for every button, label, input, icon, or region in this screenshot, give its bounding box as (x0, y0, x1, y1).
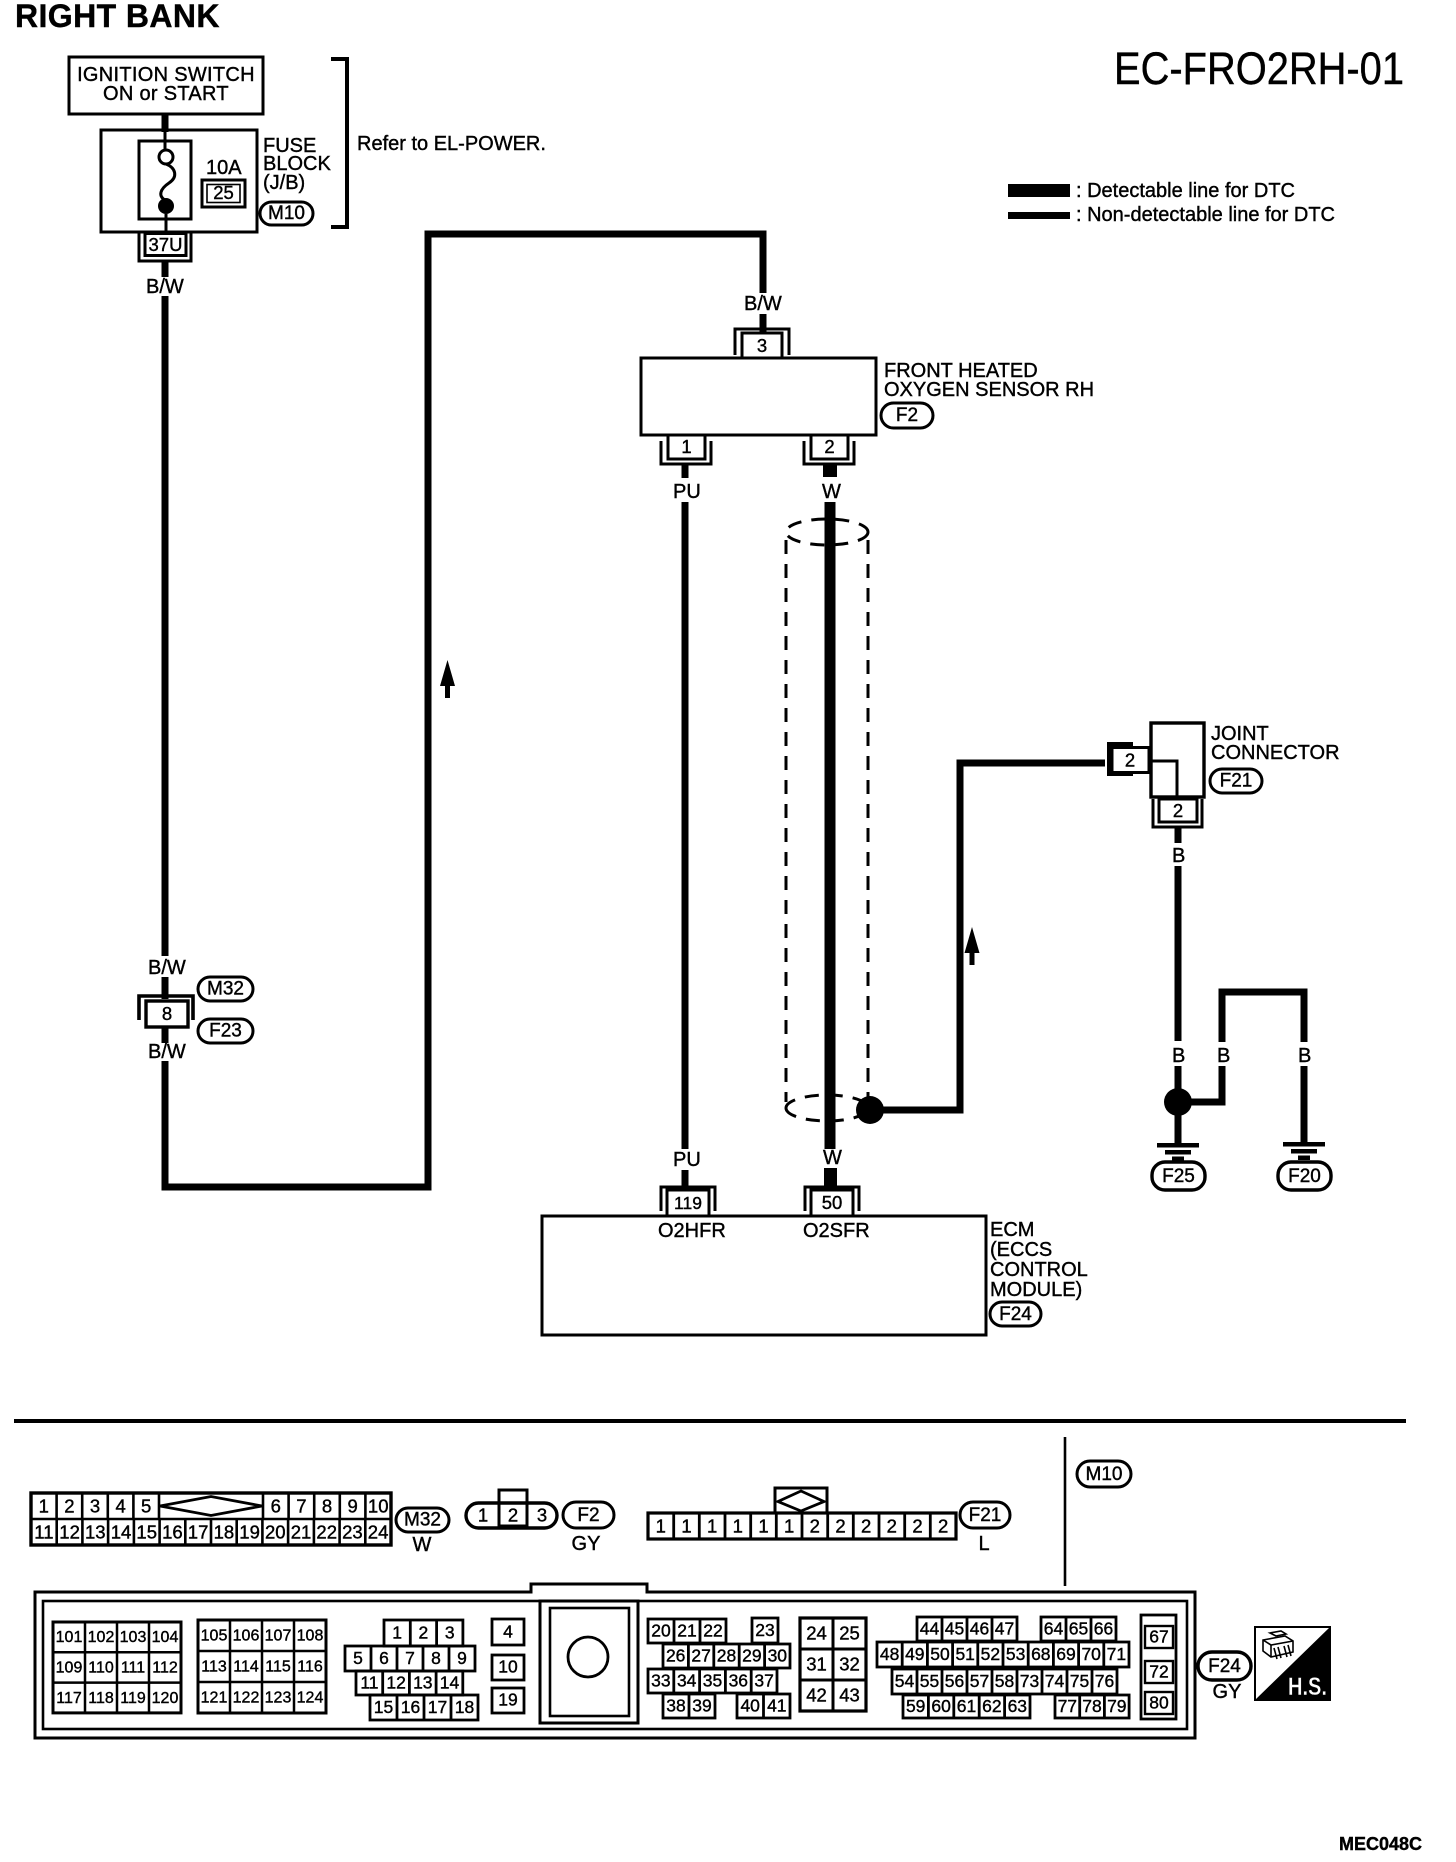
label B (right) (1298, 1045, 1311, 1067)
svg-text:119: 119 (120, 1690, 146, 1707)
wire W vertical (detectable) (825, 502, 836, 1149)
svg-text:MEC048C: MEC048C (1339, 1834, 1422, 1854)
svg-text:F21: F21 (969, 1505, 1002, 1526)
svg-text:121: 121 (201, 1690, 228, 1707)
label B below joint connector (1172, 845, 1185, 867)
svg-text:67: 67 (1149, 1627, 1168, 1647)
svg-text:30: 30 (768, 1646, 788, 1666)
svg-text:2: 2 (1125, 750, 1135, 771)
svg-text:79: 79 (1107, 1696, 1126, 1716)
svg-text:1: 1 (681, 1516, 691, 1537)
svg-text:F24: F24 (999, 1304, 1032, 1325)
wire stub into pin 119 (682, 1170, 689, 1188)
color label L (978, 1533, 989, 1555)
svg-text:104: 104 (152, 1629, 179, 1646)
svg-text:B/W: B/W (148, 1041, 186, 1063)
svg-text:W: W (823, 1147, 842, 1169)
svg-text:27: 27 (691, 1646, 710, 1666)
svg-text:41: 41 (767, 1696, 786, 1716)
svg-text:5: 5 (353, 1648, 363, 1668)
svg-text:H.S.: H.S. (1288, 1673, 1327, 1701)
svg-text:24: 24 (806, 1623, 827, 1644)
svg-text:1: 1 (681, 436, 691, 457)
svg-text:18: 18 (214, 1522, 235, 1543)
svg-text:CONNECTOR: CONNECTOR (1211, 742, 1340, 764)
svg-text:1: 1 (392, 1623, 402, 1643)
label B/W (146, 276, 184, 298)
svg-text:40: 40 (740, 1696, 760, 1716)
svg-text:F25: F25 (1162, 1166, 1195, 1187)
separator line (14, 1419, 1406, 1423)
svg-text:RIGHT BANK: RIGHT BANK (15, 0, 220, 34)
svg-text:F21: F21 (1220, 771, 1253, 792)
svg-text:15: 15 (374, 1697, 393, 1717)
svg-text:2: 2 (938, 1516, 948, 1537)
ECM pins 67,72,80 column (1141, 1615, 1176, 1719)
svg-text:45: 45 (945, 1619, 964, 1639)
flow arrow up on drain wire (965, 927, 980, 965)
svg-text:22: 22 (703, 1621, 722, 1641)
svg-text:ON or START: ON or START (103, 83, 229, 105)
svg-text:MODULE): MODULE) (990, 1279, 1082, 1301)
svg-text:38: 38 (666, 1696, 685, 1716)
wire B vertical (1175, 866, 1182, 1041)
bracket for EL-POWER reference (331, 59, 347, 227)
svg-text:54: 54 (895, 1671, 915, 1691)
svg-text:71: 71 (1107, 1644, 1126, 1664)
svg-text:32: 32 (839, 1654, 860, 1675)
svg-text:31: 31 (806, 1654, 827, 1675)
connector label F24 (990, 1302, 1041, 1326)
svg-text:117: 117 (56, 1690, 82, 1707)
svg-text:3: 3 (757, 335, 767, 356)
svg-text:B/W: B/W (148, 957, 186, 979)
shield dashed cylinder (786, 519, 868, 1121)
svg-text:50: 50 (930, 1644, 950, 1664)
connector M32 pin grid (31, 1493, 391, 1545)
svg-text:114: 114 (233, 1659, 259, 1676)
svg-text:L: L (978, 1533, 989, 1555)
MEC048C code (1339, 1834, 1422, 1854)
ECM box (542, 1216, 986, 1335)
svg-text:66: 66 (1094, 1619, 1113, 1639)
svg-text:EC-FRO2RH-01: EC-FRO2RH-01 (1114, 43, 1404, 94)
svg-text:77: 77 (1058, 1696, 1077, 1716)
svg-text:48: 48 (880, 1644, 899, 1664)
svg-text:1: 1 (39, 1496, 49, 1517)
svg-text:3: 3 (537, 1505, 547, 1526)
svg-text:OXYGEN SENSOR RH: OXYGEN SENSOR RH (884, 379, 1094, 401)
connector 37U (139, 232, 191, 277)
svg-text:14: 14 (111, 1522, 132, 1543)
svg-text:B/W: B/W (744, 293, 782, 315)
svg-text:124: 124 (297, 1690, 324, 1707)
connector label F21 (bottom) (960, 1502, 1010, 1528)
svg-text:12: 12 (59, 1522, 80, 1543)
svg-text:50: 50 (822, 1192, 843, 1213)
junction dot shield drain (856, 1096, 884, 1124)
diagram id EC-FRO2RH-01 (1114, 43, 1404, 94)
fuse 25 (10A) (139, 132, 245, 232)
connector label F21 (1210, 769, 1262, 793)
svg-text:(ECCS: (ECCS (990, 1239, 1052, 1261)
pin 3 of front heated oxygen sensor (735, 329, 789, 358)
svg-text:M32: M32 (207, 979, 244, 1000)
svg-text:20: 20 (651, 1621, 671, 1641)
connector F2 pin strip (466, 1490, 557, 1528)
ECM pins 105-124 grid (198, 1620, 326, 1713)
svg-text:42: 42 (806, 1685, 827, 1706)
M10 section line (1064, 1437, 1067, 1586)
ground label F25 (1152, 1162, 1205, 1190)
label B/W (148, 957, 186, 979)
svg-text:3: 3 (90, 1496, 100, 1517)
svg-text:9: 9 (347, 1496, 357, 1517)
svg-text:47: 47 (995, 1619, 1014, 1639)
svg-text:6: 6 (379, 1648, 389, 1668)
svg-text:O2HFR: O2HFR (658, 1220, 726, 1242)
svg-text:F24: F24 (1208, 1656, 1241, 1677)
svg-text:PU: PU (673, 1149, 701, 1171)
ECM pins 101-120 grid (53, 1622, 181, 1713)
svg-text:1: 1 (707, 1516, 717, 1537)
svg-text:7: 7 (405, 1648, 415, 1668)
svg-text:13: 13 (85, 1522, 106, 1543)
svg-text:18: 18 (455, 1697, 474, 1717)
svg-text:59: 59 (906, 1696, 925, 1716)
connector label F2 (881, 403, 933, 428)
svg-text:GY: GY (1213, 1681, 1242, 1703)
svg-text:35: 35 (703, 1671, 722, 1691)
legend non-detectable line for DTC (1008, 204, 1335, 226)
svg-text:4: 4 (503, 1622, 513, 1642)
wire PU vertical (682, 502, 689, 1149)
label O2SFR (803, 1220, 870, 1242)
svg-text:1: 1 (733, 1516, 743, 1537)
svg-text:123: 123 (265, 1690, 292, 1707)
svg-text:F2: F2 (896, 405, 918, 426)
svg-text:24: 24 (368, 1522, 389, 1543)
connector label F2 (bottom) (563, 1502, 614, 1528)
svg-text:8: 8 (431, 1648, 441, 1668)
ECM center keyway (540, 1601, 638, 1723)
connector label M32 (bottom) (396, 1508, 449, 1532)
svg-text:44: 44 (920, 1619, 940, 1639)
pin 1 of sensor (661, 435, 711, 478)
svg-text:1: 1 (478, 1505, 488, 1526)
svg-text:2: 2 (887, 1516, 897, 1537)
svg-text:19: 19 (239, 1522, 260, 1543)
svg-text:62: 62 (982, 1696, 1001, 1716)
svg-text:34: 34 (677, 1671, 697, 1691)
svg-text:108: 108 (297, 1628, 324, 1645)
svg-text:57: 57 (970, 1671, 989, 1691)
svg-text:51: 51 (955, 1644, 974, 1664)
pin 2 of joint connector (left) (1109, 744, 1149, 774)
connector label M10 (260, 202, 313, 225)
svg-text:17: 17 (188, 1522, 209, 1543)
svg-text:14: 14 (440, 1673, 460, 1693)
svg-text:13: 13 (413, 1673, 432, 1693)
wire dot to middle branch (1188, 1066, 1222, 1102)
svg-text:63: 63 (1008, 1696, 1027, 1716)
wire bridge middle to right branch (1222, 992, 1304, 1042)
svg-text:106: 106 (233, 1628, 260, 1645)
svg-text:113: 113 (201, 1659, 227, 1676)
label O2HFR (658, 1220, 726, 1242)
svg-text:102: 102 (88, 1629, 115, 1646)
svg-text:70: 70 (1081, 1644, 1101, 1664)
svg-text:37: 37 (754, 1671, 773, 1691)
pin 119 of ECM (661, 1187, 715, 1216)
junction dot ground net (1164, 1088, 1192, 1116)
svg-text:12: 12 (386, 1673, 405, 1693)
svg-text:53: 53 (1006, 1644, 1025, 1664)
connector F21 pin strip (648, 1488, 956, 1539)
svg-text:80: 80 (1149, 1693, 1169, 1713)
svg-text:9: 9 (457, 1648, 467, 1668)
svg-text:M32: M32 (404, 1510, 441, 1531)
svg-text:8: 8 (162, 1003, 172, 1024)
svg-text:72: 72 (1149, 1662, 1168, 1682)
label B (middle) (1217, 1045, 1230, 1067)
svg-text:73: 73 (1020, 1671, 1039, 1691)
svg-text:25: 25 (213, 182, 234, 203)
ECM pins 24-43 grid (800, 1618, 866, 1711)
wire stub into pin 50 (thick) (824, 1168, 837, 1188)
svg-text:109: 109 (56, 1660, 83, 1677)
svg-text:116: 116 (297, 1659, 323, 1676)
svg-text:PU: PU (673, 481, 701, 503)
svg-text:69: 69 (1056, 1644, 1075, 1664)
wire ignition switch to fuse block (162, 114, 169, 132)
svg-text:61: 61 (957, 1696, 976, 1716)
svg-text:1: 1 (784, 1516, 794, 1537)
svg-text:16: 16 (162, 1522, 183, 1543)
svg-text:26: 26 (666, 1646, 685, 1666)
svg-text:: Detectable line for DTC: : Detectable line for DTC (1076, 180, 1295, 202)
svg-text:W: W (413, 1534, 432, 1556)
svg-text:11: 11 (34, 1522, 53, 1543)
svg-text:B: B (1217, 1045, 1230, 1067)
svg-text:2: 2 (508, 1505, 518, 1526)
label joint connector (1211, 723, 1340, 764)
svg-text:16: 16 (401, 1697, 420, 1717)
svg-text:3: 3 (445, 1623, 455, 1643)
svg-text:: Non-detectable line for DTC: : Non-detectable line for DTC (1076, 204, 1335, 226)
svg-text:115: 115 (265, 1659, 291, 1676)
svg-text:76: 76 (1095, 1671, 1114, 1691)
svg-text:B: B (1172, 1045, 1185, 1067)
svg-text:10A: 10A (206, 157, 242, 179)
svg-text:(J/B): (J/B) (263, 172, 305, 194)
label W (822, 481, 841, 503)
svg-text:49: 49 (905, 1644, 924, 1664)
ECM pins 4,10,19 column (492, 1619, 524, 1713)
svg-text:2: 2 (810, 1516, 820, 1537)
svg-text:36: 36 (729, 1671, 748, 1691)
pin 2 of joint connector (bottom) (1153, 799, 1202, 843)
wire to connector 8 (162, 977, 169, 999)
svg-text:43: 43 (839, 1685, 860, 1706)
ECM pins 44-79 group (877, 1617, 1129, 1718)
connector label M10 (bottom) (1077, 1461, 1131, 1487)
svg-text:64: 64 (1044, 1619, 1064, 1639)
ground symbol F25 (1157, 1143, 1199, 1161)
svg-text:58: 58 (995, 1671, 1014, 1691)
ECM connector F24 outline (35, 1584, 1195, 1738)
svg-text:B/W: B/W (146, 276, 184, 298)
svg-text:2: 2 (912, 1516, 922, 1537)
joint connector body (1151, 723, 1204, 797)
svg-text:111: 111 (121, 1660, 145, 1677)
title RIGHT BANK (15, 0, 220, 34)
pin 2 of sensor (804, 435, 854, 477)
svg-text:5: 5 (141, 1496, 151, 1517)
svg-text:M10: M10 (268, 203, 305, 224)
svg-text:8: 8 (322, 1496, 332, 1517)
svg-text:4: 4 (115, 1496, 125, 1517)
legend detectable line for DTC (1008, 180, 1295, 202)
svg-text:2: 2 (64, 1496, 74, 1517)
label PU (673, 481, 701, 503)
svg-text:65: 65 (1069, 1619, 1088, 1639)
ground label F20 (1278, 1162, 1331, 1190)
svg-text:28: 28 (717, 1646, 736, 1666)
fuse block J/B box (101, 130, 257, 232)
svg-text:110: 110 (88, 1660, 114, 1677)
H.S. logo (1255, 1627, 1330, 1701)
wire B/W loop to sensor pin 3 (165, 234, 763, 1187)
svg-text:11: 11 (360, 1673, 378, 1693)
svg-text:10: 10 (498, 1657, 518, 1677)
svg-text:107: 107 (265, 1628, 292, 1645)
svg-text:19: 19 (498, 1690, 517, 1710)
svg-text:21: 21 (677, 1621, 696, 1641)
svg-text:2: 2 (419, 1623, 429, 1643)
svg-text:F2: F2 (577, 1505, 599, 1526)
ignition switch box (69, 57, 263, 114)
wire right branch to ground F20 (1301, 1066, 1308, 1143)
svg-text:22: 22 (316, 1522, 337, 1543)
flow arrow up on loop wire (440, 660, 455, 698)
label B/W (148, 1041, 186, 1063)
front heated oxygen sensor RH box (641, 358, 876, 435)
svg-text:15: 15 (136, 1522, 157, 1543)
svg-text:56: 56 (945, 1671, 964, 1691)
svg-text:1: 1 (656, 1516, 666, 1537)
svg-text:17: 17 (428, 1697, 447, 1717)
svg-text:39: 39 (692, 1696, 711, 1716)
in-line connector 8 (M32-F23) (139, 996, 193, 1043)
svg-text:M10: M10 (1086, 1464, 1123, 1485)
svg-text:2: 2 (861, 1516, 871, 1537)
label B (left) (1172, 1045, 1185, 1067)
fuse block label (263, 135, 331, 194)
svg-text:68: 68 (1031, 1644, 1050, 1664)
svg-text:122: 122 (233, 1690, 260, 1707)
svg-text:10: 10 (368, 1496, 389, 1517)
svg-text:118: 118 (88, 1690, 114, 1707)
wire into pin 3 (760, 314, 767, 333)
svg-text:B: B (1172, 845, 1185, 867)
wire shield drain to joint connector (880, 763, 1105, 1110)
svg-text:21: 21 (291, 1522, 312, 1543)
svg-text:75: 75 (1070, 1671, 1089, 1691)
label ECM (ECCS CONTROL MODULE) (990, 1219, 1088, 1301)
svg-text:CONTROL: CONTROL (990, 1259, 1088, 1281)
svg-text:37U: 37U (149, 234, 183, 255)
label W bottom (823, 1147, 842, 1169)
svg-text:1: 1 (758, 1516, 768, 1537)
svg-text:2: 2 (824, 436, 834, 457)
svg-text:60: 60 (931, 1696, 951, 1716)
svg-text:33: 33 (651, 1671, 670, 1691)
wire B/W left vertical (162, 296, 169, 956)
ECM pins 20-43 group (648, 1618, 790, 1718)
svg-text:6: 6 (271, 1496, 281, 1517)
svg-text:29: 29 (742, 1646, 761, 1666)
svg-text:52: 52 (981, 1644, 1000, 1664)
svg-text:25: 25 (839, 1623, 860, 1644)
svg-text:7: 7 (296, 1496, 306, 1517)
note refer to EL-POWER (357, 133, 546, 155)
svg-text:101: 101 (56, 1629, 83, 1646)
svg-text:ECM: ECM (990, 1219, 1034, 1241)
svg-text:GY: GY (572, 1533, 601, 1555)
color label GY (572, 1533, 601, 1555)
svg-text:105: 105 (201, 1628, 228, 1645)
svg-text:Refer to EL-POWER.: Refer to EL-POWER. (357, 133, 546, 155)
label PU bottom (673, 1149, 701, 1171)
pin 50 of ECM (805, 1187, 859, 1216)
svg-text:B: B (1298, 1045, 1311, 1067)
svg-text:46: 46 (970, 1619, 989, 1639)
svg-text:23: 23 (342, 1522, 363, 1543)
color label GY (F24) (1213, 1681, 1242, 1703)
svg-text:74: 74 (1045, 1671, 1065, 1691)
svg-text:78: 78 (1082, 1696, 1101, 1716)
svg-text:2: 2 (835, 1516, 845, 1537)
svg-text:120: 120 (152, 1690, 179, 1707)
svg-text:F20: F20 (1288, 1166, 1321, 1187)
ground symbol F20 (1283, 1142, 1325, 1160)
svg-text:20: 20 (265, 1522, 286, 1543)
wire B to junction dot (1175, 1066, 1182, 1092)
label B/W at sensor (744, 293, 782, 315)
svg-text:119: 119 (674, 1193, 702, 1213)
svg-text:103: 103 (120, 1629, 147, 1646)
connector label F24 (bottom) (1198, 1652, 1251, 1680)
ECM pins 1-19 group (345, 1620, 478, 1720)
wire dot to ground F25 (1175, 1112, 1182, 1144)
svg-text:112: 112 (152, 1660, 178, 1677)
svg-text:2: 2 (1173, 800, 1183, 821)
svg-text:55: 55 (920, 1671, 939, 1691)
connector label M32 (198, 977, 253, 1001)
svg-text:W: W (822, 481, 841, 503)
color label W (413, 1534, 432, 1556)
connector label F23 (198, 1019, 253, 1043)
svg-text:F23: F23 (209, 1021, 242, 1042)
label front heated oxygen sensor RH (884, 360, 1094, 401)
svg-text:O2SFR: O2SFR (803, 1220, 870, 1242)
svg-text:23: 23 (755, 1620, 774, 1640)
